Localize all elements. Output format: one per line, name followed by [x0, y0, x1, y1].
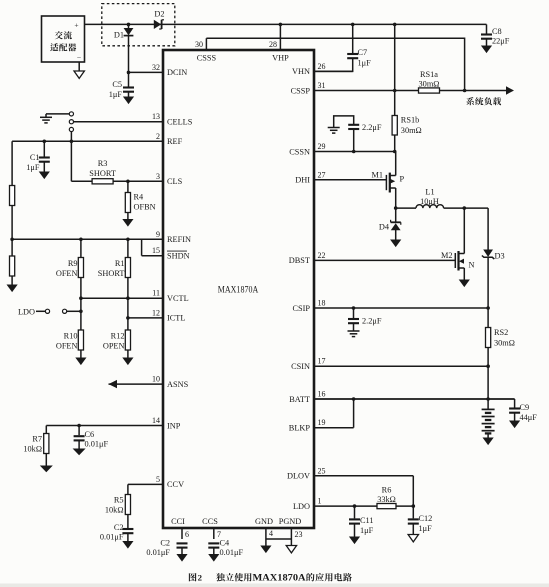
svg-text:2.2μF: 2.2μF [362, 317, 382, 326]
svg-text:C4: C4 [220, 539, 231, 548]
svg-text:ASNS: ASNS [167, 380, 189, 389]
svg-text:31: 31 [318, 81, 326, 90]
svg-text:BLKP: BLKP [289, 424, 311, 433]
svg-text:1μF: 1μF [358, 59, 372, 68]
svg-text:19: 19 [318, 418, 326, 427]
svg-text:R4: R4 [134, 193, 145, 202]
capacitor C7 [351, 23, 355, 27]
node CSIP rail junction [486, 306, 490, 310]
ground C5 [123, 97, 134, 105]
svg-text:REF: REF [167, 137, 183, 146]
svg-text:RS1a: RS1a [420, 70, 438, 79]
resistor R9 (OFEN) [80, 239, 82, 257]
wire BLKP tie [353, 399, 355, 428]
svg-text:1: 1 [318, 497, 322, 506]
svg-text:VCTL: VCTL [167, 294, 189, 303]
svg-text:9: 9 [156, 230, 160, 239]
svg-text:N: N [469, 261, 475, 270]
capacitor C2 (CCI) [177, 542, 188, 544]
svg-text:2: 2 [198, 573, 203, 583]
resistor RS1a [419, 88, 440, 93]
wire DLOV down [412, 476, 414, 506]
svg-text:VHP: VHP [272, 54, 289, 63]
node CSIN rail junction [486, 364, 490, 368]
transistor M2 (N-MOSFET) [463, 206, 467, 210]
capacitor C2 (CCV leg) [122, 528, 133, 530]
svg-text:C2: C2 [160, 539, 170, 548]
wire R1 leg down to ICTL [127, 298, 129, 318]
svg-text:SHORT: SHORT [98, 269, 125, 278]
svg-text:CCV: CCV [167, 480, 184, 489]
svg-text:10μH: 10μH [420, 197, 439, 206]
svg-text:10kΩ: 10kΩ [105, 506, 124, 515]
pin 2 REF wire [12, 140, 163, 142]
pin 1 LDO wire [314, 505, 413, 507]
capacitor C12 [412, 506, 414, 518]
svg-text:2.2μF: 2.2μF [362, 123, 382, 132]
svg-text:29: 29 [318, 142, 326, 151]
svg-text:CSSP: CSSP [291, 86, 311, 95]
ground GND [260, 546, 271, 554]
resistor R10 (OFEN) [78, 330, 83, 350]
wire jumper bottom to CLS/R3 [70, 132, 72, 182]
svg-text:DLOV: DLOV [287, 472, 310, 481]
svg-text:0.01μF: 0.01μF [100, 533, 124, 542]
svg-text:R9: R9 [68, 259, 78, 268]
svg-text:OPEN: OPEN [103, 342, 125, 351]
ground PGND (open arrow) [286, 546, 296, 553]
node LX junction [394, 206, 398, 210]
diode D1 [128, 24, 130, 28]
svg-text:L1: L1 [425, 188, 434, 197]
CELLS selector jumper [46, 113, 69, 115]
resistor R4 (to gnd from CLS) [126, 180, 130, 184]
svg-text:1μF: 1μF [419, 524, 433, 533]
adapter output arrow (minus terminal, open arrowhead) [78, 62, 80, 72]
capacitor C8 [486, 24, 488, 33]
svg-text:30: 30 [195, 40, 203, 49]
svg-text:R5: R5 [114, 496, 124, 505]
pin 4 GND stub [265, 528, 267, 546]
svg-text:C11: C11 [360, 516, 374, 525]
svg-text:–: – [76, 53, 81, 61]
capacitor C5 [128, 72, 130, 86]
svg-text:1μF: 1μF [26, 163, 40, 172]
inductor L1 [416, 205, 444, 208]
diode D4 (schottky to ground) [395, 208, 397, 221]
svg-text:10: 10 [152, 375, 160, 384]
ground (earth) jumper top [45, 114, 47, 117]
svg-text:13: 13 [152, 112, 160, 121]
svg-text:R3: R3 [98, 159, 108, 168]
pin 31 CSSP wire [314, 90, 506, 92]
capacitor C1 [43, 140, 47, 144]
svg-text:MAX1870A: MAX1870A [218, 284, 259, 294]
wire RS1b to CSSN [394, 135, 396, 152]
svg-text:C9: C9 [520, 403, 530, 412]
resistor R12 (OPEN) [127, 318, 129, 330]
ground D4 [390, 240, 401, 248]
pin 25 DLOV wire [314, 475, 413, 477]
svg-text:RS1b: RS1b [401, 116, 419, 125]
svg-text:22μF: 22μF [492, 37, 510, 46]
pin 17 CSIN wire [314, 365, 488, 367]
resistor R7 [45, 426, 47, 434]
svg-text:ICTL: ICTL [167, 314, 185, 323]
svg-text:MAX1870A: MAX1870A [253, 573, 307, 583]
svg-text:10kΩ: 10kΩ [23, 445, 42, 454]
node VHP junction on top rail [279, 23, 283, 27]
capacitor 2.2uF (CSSN) [352, 150, 356, 154]
SHDN tie to REFIN [141, 239, 143, 255]
capacitor 2.2uF (CSIP) [352, 306, 356, 310]
svg-text:REFIN: REFIN [167, 235, 191, 244]
svg-text:27: 27 [318, 170, 326, 179]
resistor divider top (unlabeled) [10, 186, 15, 206]
resistor divider bottom (unlabeled) [11, 239, 13, 256]
svg-text:C7: C7 [358, 48, 368, 57]
svg-text:5: 5 [156, 475, 160, 484]
ASNS arrow [109, 380, 118, 388]
svg-text:30mΩ: 30mΩ [419, 80, 440, 89]
svg-text:+: + [74, 21, 78, 30]
svg-text:C1: C1 [30, 153, 40, 162]
svg-text:22: 22 [318, 251, 326, 260]
resistor RS2 [487, 308, 489, 328]
svg-text:INP: INP [167, 421, 181, 430]
svg-text:33kΩ: 33kΩ [377, 495, 396, 504]
svg-text:0.01μF: 0.01μF [146, 548, 170, 557]
svg-text:C5: C5 [112, 80, 122, 89]
battery BT1 [487, 399, 489, 409]
pin 28 VHP stub [279, 24, 281, 50]
node CSSS tap junction [463, 89, 467, 93]
svg-text:CCS: CCS [202, 517, 218, 526]
svg-text:25: 25 [318, 466, 326, 475]
wire right rail down [487, 208, 489, 249]
svg-text:1μF: 1μF [109, 90, 123, 99]
pin 13 CELLS wire [74, 121, 164, 123]
pin 22 DBST wire [314, 259, 455, 261]
svg-text:16: 16 [318, 390, 326, 399]
svg-text:R10: R10 [64, 332, 78, 341]
pin 5 CCV wire [128, 483, 163, 485]
svg-text:LDO: LDO [18, 308, 35, 317]
svg-text:17: 17 [318, 357, 326, 366]
wire D1 to DCIN [128, 36, 130, 73]
capacitor C9 [514, 399, 516, 408]
svg-text:12: 12 [152, 308, 160, 317]
svg-text:PGND: PGND [279, 517, 302, 526]
svg-text:C6: C6 [85, 430, 95, 439]
svg-text:23: 23 [295, 530, 303, 539]
node REFIN junctions [79, 238, 83, 242]
svg-text:CELLS: CELLS [167, 118, 193, 127]
wire top rail down to RS1b [394, 24, 396, 115]
svg-text:C8: C8 [492, 27, 502, 36]
pin 9 REFIN wire [12, 238, 163, 240]
pin 16 BATT wire [314, 398, 515, 400]
wire GND-PGND tie [266, 538, 292, 540]
svg-text:32: 32 [152, 63, 160, 72]
svg-text:CSSS: CSSS [197, 54, 217, 63]
svg-text:R6: R6 [382, 486, 392, 495]
svg-text:C12: C12 [419, 514, 433, 523]
svg-text:BATT: BATT [289, 395, 310, 404]
node VCTL junction [126, 296, 130, 300]
svg-text:SHDN: SHDN [167, 252, 190, 261]
pin 14 INP wire [46, 425, 163, 427]
svg-text:0.01μF: 0.01μF [85, 440, 109, 449]
svg-text:30mΩ: 30mΩ [494, 339, 515, 348]
pin 7 CCS stub [213, 528, 215, 539]
svg-text:M1: M1 [371, 171, 383, 180]
svg-text:OFEN: OFEN [56, 342, 78, 351]
svg-text:14: 14 [152, 416, 160, 425]
svg-text:DHI: DHI [295, 176, 310, 185]
pin 6 CCI stub [181, 528, 183, 539]
pin 3 CLS wire [71, 180, 163, 182]
diode D3 (schottky) [483, 250, 493, 257]
dashed protection box [102, 4, 175, 46]
svg-text:2: 2 [156, 132, 160, 141]
wire REF rail to left divider [11, 141, 13, 185]
AC adapter box [42, 16, 85, 62]
pin 23 PGND stub [290, 528, 292, 546]
svg-text:D3: D3 [495, 252, 505, 261]
resistor R6 [377, 504, 396, 509]
svg-text:GND: GND [255, 517, 273, 526]
scan shading bottom edge [0, 584, 549, 587]
svg-text:CCI: CCI [171, 517, 185, 526]
svg-text:28: 28 [269, 40, 277, 49]
node INP/C6 junction [77, 424, 81, 428]
svg-text:30mΩ: 30mΩ [401, 126, 422, 135]
svg-text:M2: M2 [441, 251, 453, 260]
pin 26 VHN wire [314, 70, 353, 72]
resistor RS1b [392, 116, 397, 136]
wire L1 to right rail [444, 207, 489, 209]
capacitor C11 [353, 504, 357, 508]
diode D2 (schottky, on top rail) [154, 20, 161, 29]
pin 32 DCIN wire [129, 71, 164, 73]
pin 30 CSSS stub [205, 38, 207, 50]
svg-text:26: 26 [318, 62, 326, 71]
wire LX node [396, 207, 416, 209]
svg-text:DBST: DBST [289, 256, 310, 265]
pin 27 DHI wire [314, 179, 386, 181]
svg-text:D4: D4 [379, 223, 390, 232]
resistor R5 [127, 484, 129, 494]
wire CSSS net (pin30 to load side of RS1a) [206, 38, 464, 90]
pin 12 ICTL wire [128, 317, 163, 319]
svg-text:D1: D1 [114, 31, 124, 40]
svg-text:C2: C2 [114, 523, 124, 532]
svg-text:OFBN: OFBN [134, 203, 156, 212]
node adapter/D1 junction [127, 23, 131, 27]
svg-text:DCIN: DCIN [167, 68, 187, 77]
svg-text:P: P [400, 175, 405, 184]
svg-text:11: 11 [152, 289, 160, 298]
node CSSP rail junction [393, 89, 397, 93]
caption figure title [189, 573, 197, 581]
svg-text:CSIP: CSIP [292, 304, 310, 313]
pin 15 SHDN wire [142, 255, 163, 257]
pin 29 CSSN wire [314, 151, 395, 153]
svg-text:RS2: RS2 [494, 328, 508, 337]
svg-text:R7: R7 [32, 435, 42, 444]
system load arrow [506, 86, 514, 94]
svg-text:6: 6 [185, 530, 189, 539]
resistor R3 (SHORT) [92, 179, 113, 184]
pin 18 CSIP wire [314, 307, 488, 309]
svg-text:0.01μF: 0.01μF [220, 548, 244, 557]
pin 11 VCTL wire [81, 297, 163, 299]
transistor M1 (P-MOSFET) [385, 175, 387, 190]
svg-text:OFEN: OFEN [56, 269, 78, 278]
svg-text:LDO: LDO [293, 502, 310, 511]
pin 19 BLKP wire [314, 427, 354, 429]
wire R9 leg down through LDO jumper [80, 298, 82, 330]
wire adapter node (top rail) [85, 23, 487, 25]
svg-text:4: 4 [269, 529, 273, 538]
svg-text:SHORT: SHORT [89, 169, 116, 178]
svg-text:D2: D2 [154, 10, 164, 19]
svg-text:R12: R12 [111, 332, 125, 341]
svg-text:3: 3 [156, 172, 160, 181]
svg-text:VHN: VHN [292, 67, 310, 76]
svg-text:CLS: CLS [167, 177, 183, 186]
svg-text:CSIN: CSIN [291, 362, 310, 371]
svg-text:CSSN: CSSN [289, 147, 310, 156]
op-amp U1 MAX1870A IC body [163, 50, 314, 528]
svg-text:18: 18 [318, 299, 326, 308]
pin 10 ASNS wire [109, 383, 164, 385]
resistor R1 (SHORT) [127, 239, 129, 257]
svg-text:1μF: 1μF [360, 526, 374, 535]
capacitor C4 (CCS) [208, 542, 219, 544]
svg-text:15: 15 [152, 246, 160, 255]
node RS1b tap on top rail [393, 23, 397, 27]
wire BATT rail [314, 398, 515, 400]
svg-text:44μF: 44μF [520, 413, 538, 422]
svg-text:R1: R1 [115, 259, 125, 268]
capacitor C6 [78, 426, 80, 436]
